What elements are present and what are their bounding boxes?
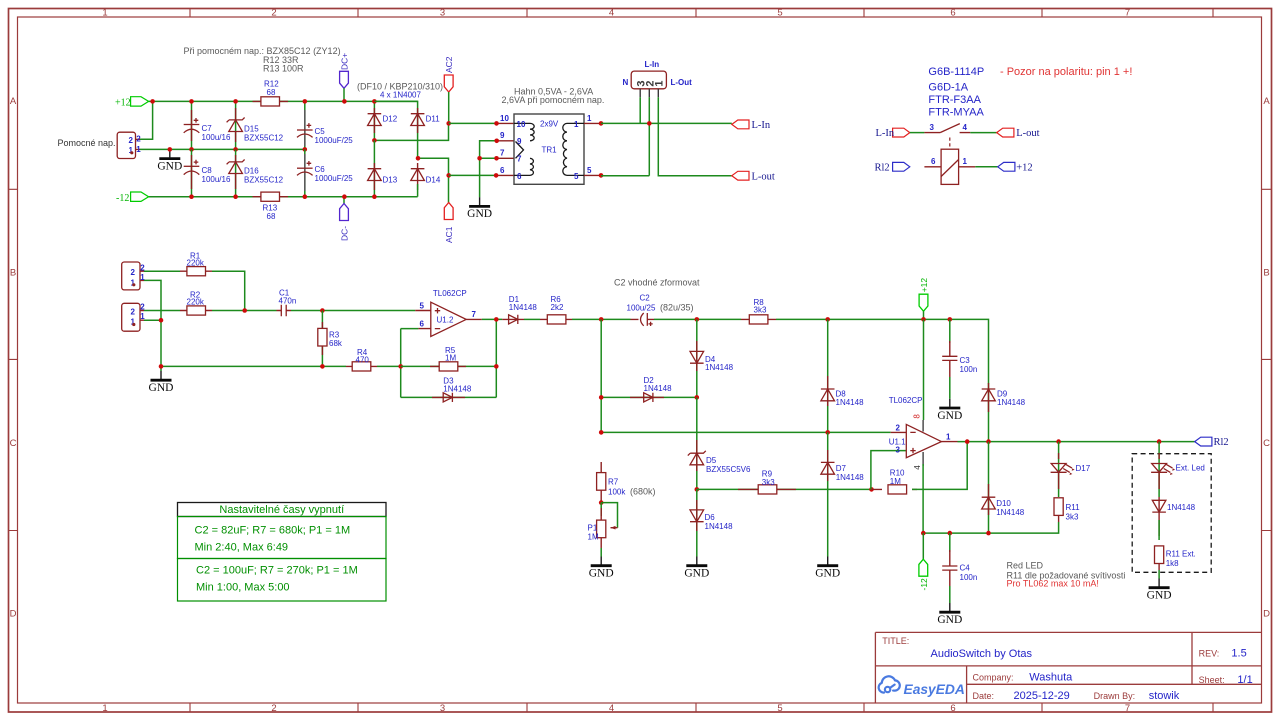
wire +12 rail: [140, 101, 418, 139]
junction C6 bottom: [303, 194, 308, 199]
svg-text:2: 2: [271, 8, 276, 19]
svg-text:TL062CP: TL062CP: [433, 289, 467, 298]
svg-text:1N4148: 1N4148: [443, 384, 472, 393]
svg-text:DC+: DC+: [340, 53, 350, 70]
note relay types: [928, 66, 1132, 119]
svg-text:D12: D12: [383, 115, 398, 124]
note DF10: [357, 81, 443, 99]
svg-text:D11: D11: [426, 115, 441, 124]
dashed box ext led: [1132, 454, 1211, 573]
wire TR1 pin1 to mains connector: [584, 121, 732, 126]
svg-text:(82u/35): (82u/35): [660, 302, 694, 312]
svg-text:100n: 100n: [960, 365, 978, 374]
svg-text:100u/16: 100u/16: [202, 133, 231, 142]
svg-text:Rl2: Rl2: [1214, 437, 1229, 448]
wire mains pin2: [648, 97, 650, 176]
junction C7 top: [189, 99, 194, 104]
junction R7 bottom: [599, 500, 604, 505]
svg-text:5: 5: [574, 172, 579, 181]
title block: [875, 632, 1261, 703]
junction D8 top: [825, 317, 830, 322]
svg-text:8: 8: [913, 414, 922, 419]
connector J3 input B: [122, 303, 146, 332]
zener D16: [227, 149, 284, 196]
svg-text:C: C: [10, 438, 17, 449]
diode 1N4148 ext: [1152, 497, 1195, 540]
ground GND C4: [937, 603, 962, 626]
svg-text:C2 = 100uF; R7 = 270k; P1 = 1M: C2 = 100uF; R7 = 270k; P1 = 1M: [196, 565, 358, 577]
svg-text:1: 1: [963, 157, 968, 166]
junction bottom rail C4: [948, 531, 953, 536]
wire AC2 node to TR1 pin10: [449, 114, 514, 126]
svg-text:1N4148: 1N4148: [705, 363, 734, 372]
svg-text:D6: D6: [705, 513, 716, 522]
wire relay contact right: [970, 132, 996, 134]
diode D8: [821, 319, 864, 432]
svg-text:AC1: AC1: [444, 226, 454, 243]
svg-text:1N4148: 1N4148: [836, 473, 865, 482]
svg-text:100k: 100k: [608, 487, 626, 496]
zener D5: [688, 397, 751, 489]
svg-text:2: 2: [131, 307, 136, 316]
junction output D17: [1056, 439, 1061, 444]
junction input B pin1: [159, 318, 164, 323]
resistor R7: [597, 462, 656, 503]
capacitor C7: [184, 101, 231, 149]
transformer TR1: [514, 114, 584, 184]
wire input B pin2 to R2: [144, 310, 180, 312]
resistor R4: [346, 348, 377, 371]
resistor R6: [540, 295, 572, 324]
svg-text:1N4148: 1N4148: [644, 384, 673, 393]
wire R6 to C2: [572, 318, 631, 320]
svg-text:3k3: 3k3: [762, 478, 775, 487]
junction pin2 rail D8: [825, 430, 830, 435]
ground GND inputs: [149, 371, 174, 394]
svg-text:Date:: Date:: [973, 691, 995, 701]
ground GND ext: [1147, 579, 1172, 602]
op-amp U1.2: [415, 289, 482, 337]
svg-text:AudioSwitch by Otas: AudioSwitch by Otas: [931, 648, 1033, 660]
junction output feedback: [965, 439, 970, 444]
svg-text:R13 100R: R13 100R: [263, 64, 304, 74]
svg-text:BZX55C12: BZX55C12: [244, 175, 284, 184]
junction DC-: [342, 194, 347, 199]
svg-text:220k: 220k: [187, 258, 205, 267]
potentiometer P1: [588, 503, 618, 548]
svg-text:1: 1: [653, 80, 665, 86]
svg-text:1: 1: [102, 703, 107, 714]
note red led: [1007, 561, 1126, 589]
svg-text:Drawn By:: Drawn By:: [1094, 691, 1136, 701]
svg-text:1: 1: [574, 120, 579, 129]
diode D6: [690, 489, 733, 556]
svg-text:5: 5: [777, 703, 782, 714]
wire R11 to bottom rail: [923, 522, 1058, 533]
diode D2: [601, 376, 697, 402]
svg-text:stowik: stowik: [1149, 690, 1180, 702]
svg-text:Min 2:40, Max 6:49: Min 2:40, Max 6:49: [195, 542, 289, 554]
svg-text:7: 7: [472, 310, 477, 319]
junction AC2 node: [446, 121, 451, 126]
junction C8 bottom: [189, 194, 194, 199]
wire R2 out to C1: [212, 310, 277, 312]
junction GND stem: [168, 147, 173, 152]
svg-text:4: 4: [609, 8, 614, 19]
svg-text:4: 4: [963, 123, 968, 132]
wire input A pin2 to R1: [144, 270, 180, 272]
net flag +12 relay: [998, 162, 1033, 173]
ground GND C3: [937, 399, 962, 422]
net port DC+: [340, 53, 350, 102]
diode D11: [374, 101, 440, 158]
net flag L-out relay: [997, 128, 1040, 139]
svg-text:C8: C8: [202, 166, 213, 175]
svg-text:DC-: DC-: [340, 226, 350, 241]
svg-text:C4: C4: [960, 564, 971, 573]
svg-text:R11: R11: [1066, 503, 1081, 512]
ground GND under TR1: [467, 197, 492, 220]
net flag +12: [115, 97, 149, 109]
svg-text:(680k): (680k): [630, 486, 656, 496]
svg-text:1k8: 1k8: [1166, 559, 1179, 568]
junction L-In branch: [647, 121, 652, 126]
svg-text:7: 7: [1125, 8, 1130, 19]
resistor R9: [697, 469, 872, 494]
svg-text:FTR-F3AA: FTR-F3AA: [928, 94, 981, 106]
svg-text:2x9V: 2x9V: [540, 120, 559, 129]
wire mains pin3: [639, 97, 641, 123]
svg-text:2: 2: [129, 136, 134, 145]
connector J mains L-In: [623, 60, 693, 97]
svg-text:Min 1:00, Max 5:00: Min 1:00, Max 5:00: [196, 582, 290, 594]
resistor R1: [180, 251, 212, 276]
svg-text:6: 6: [950, 8, 955, 19]
svg-text:100u/16: 100u/16: [202, 175, 231, 184]
capacitor C3: [942, 319, 977, 398]
junction C3 top: [948, 317, 953, 322]
junction C2 right: [695, 317, 700, 322]
svg-text:3: 3: [440, 703, 445, 714]
svg-text:Rl2: Rl2: [875, 162, 890, 173]
op-amp U1.1: [889, 396, 958, 458]
svg-text:L-In: L-In: [752, 120, 771, 131]
junction D2 right: [695, 395, 700, 400]
junction D12 top: [372, 99, 377, 104]
junction R10 left: [869, 487, 874, 492]
capacitor C4: [942, 533, 977, 603]
svg-text:6: 6: [950, 703, 955, 714]
wire C2 to R8: [654, 318, 741, 320]
net flag L-In top: [732, 120, 771, 131]
junction output ExtLed: [1157, 439, 1162, 444]
junction output D9 D10: [986, 439, 991, 444]
svg-text:2025-12-29: 2025-12-29: [1014, 690, 1070, 702]
wire pin3 to R10 node: [871, 451, 906, 490]
svg-text:D10: D10: [996, 499, 1011, 508]
svg-text:9: 9: [517, 137, 522, 146]
svg-text:L-Out: L-Out: [671, 78, 693, 87]
wire -12 rail: [149, 196, 418, 198]
svg-text:-12: -12: [919, 578, 929, 591]
svg-text:Nastavitelné časy vypnutí: Nastavitelné časy vypnutí: [219, 504, 344, 516]
svg-text:D16: D16: [244, 167, 259, 176]
svg-text:68k: 68k: [329, 339, 343, 348]
svg-text:D: D: [1263, 609, 1270, 620]
svg-text:B: B: [10, 267, 16, 278]
svg-text:D13: D13: [383, 176, 398, 185]
led D17: [1051, 442, 1091, 497]
connector P1 Pomocne nap.: [58, 132, 142, 158]
junction +12 rail at connector branch: [150, 99, 155, 104]
svg-text:2: 2: [136, 135, 141, 144]
logo EasyEDA: [879, 676, 965, 697]
junction D15 bottom: [233, 147, 238, 152]
capacitor C5: [297, 101, 353, 149]
svg-text:1M: 1M: [588, 532, 599, 541]
wire bridge mid-left to AC2: [374, 123, 448, 140]
junction D16 bottom: [233, 194, 238, 199]
net flag -12: [919, 533, 929, 590]
svg-text:1M: 1M: [890, 477, 901, 486]
diode D14: [411, 163, 441, 197]
svg-text:220k: 220k: [187, 298, 205, 307]
junction R3 bottom: [320, 364, 325, 369]
relay K1 coil: [924, 149, 975, 184]
note: Pri pomocnem nap.: [184, 46, 341, 74]
svg-text:A: A: [1263, 96, 1270, 107]
svg-text:1.5: 1.5: [1231, 648, 1246, 660]
svg-text:AC2: AC2: [444, 56, 454, 73]
svg-text:68: 68: [267, 88, 276, 97]
ground GND psu: [157, 149, 182, 172]
svg-text:100n: 100n: [960, 573, 978, 582]
svg-text:1: 1: [136, 145, 141, 154]
svg-text:BZX55C5V6: BZX55C5V6: [706, 465, 751, 474]
svg-text:L-out: L-out: [1016, 128, 1039, 139]
svg-text:100u/25: 100u/25: [627, 303, 656, 312]
junction +12 flag: [921, 317, 926, 322]
wire signal node vertical left: [600, 319, 602, 432]
svg-text:4: 4: [609, 703, 614, 714]
svg-text:3k3: 3k3: [1066, 513, 1079, 522]
svg-text:Ext. Led: Ext. Led: [1176, 463, 1205, 472]
svg-text:L-In: L-In: [876, 128, 895, 139]
svg-text:D5: D5: [706, 456, 717, 465]
svg-text:3: 3: [930, 123, 935, 132]
ground GND D7: [815, 557, 840, 580]
svg-text:1N4148: 1N4148: [836, 398, 865, 407]
svg-text:6: 6: [420, 319, 425, 328]
junction bottom rail D10: [986, 531, 991, 536]
wire opamp out: [482, 318, 502, 320]
svg-text:6: 6: [517, 172, 522, 181]
capacitor C8: [184, 149, 231, 196]
svg-text:2k2: 2k2: [551, 303, 564, 312]
svg-text:5: 5: [420, 301, 425, 310]
diode D13: [368, 140, 398, 196]
junction D2 left: [599, 395, 604, 400]
connector J2 input A: [122, 262, 146, 290]
wire R11 ext to gnd: [1158, 570, 1160, 579]
resistor R13: [253, 192, 289, 221]
resistor R3: [318, 311, 343, 367]
wire D14 top to AC1 node: [418, 158, 449, 202]
net flag Rl2 output: [1195, 437, 1229, 448]
svg-text:10: 10: [500, 114, 509, 123]
wire C1 to opamp pin5: [291, 310, 415, 312]
svg-text:5: 5: [777, 8, 782, 19]
svg-text:Company:: Company:: [973, 672, 1014, 682]
svg-text:1/1: 1/1: [1237, 674, 1252, 686]
wire relay coil right: [975, 166, 997, 168]
wire input A pin1 to gnd rail: [144, 280, 161, 371]
svg-text:TR1: TR1: [542, 146, 558, 155]
wire gnd-return rail: [161, 365, 346, 367]
svg-text:Sheet:: Sheet:: [1199, 675, 1225, 685]
svg-text:2,6VA při pomocném nap.: 2,6VA při pomocném nap.: [502, 95, 605, 105]
svg-text:3: 3: [440, 8, 445, 19]
svg-text:C2 vhodné zformovat: C2 vhodné zformovat: [614, 277, 700, 287]
svg-text:B: B: [1263, 267, 1269, 278]
svg-text:7: 7: [1125, 703, 1130, 714]
svg-text:9: 9: [500, 131, 505, 140]
svg-text:G6D-1A: G6D-1A: [928, 82, 968, 94]
junction R3 top: [320, 308, 325, 313]
svg-text:+12: +12: [115, 98, 131, 109]
svg-text:2: 2: [896, 423, 901, 432]
svg-text:C5: C5: [315, 127, 326, 136]
resistor R11 Ext: [1155, 546, 1196, 570]
svg-text:1N4148: 1N4148: [1167, 503, 1196, 512]
junction bottom rail pin4: [921, 531, 926, 536]
svg-text:+12: +12: [1016, 162, 1032, 173]
svg-text:4: 4: [913, 465, 922, 470]
svg-text:1N4148: 1N4148: [997, 398, 1026, 407]
svg-text:- Pozor na polaritu: pin 1 +!: - Pozor na polaritu: pin 1 +!: [1000, 66, 1132, 78]
net port AC2: [444, 56, 454, 123]
svg-text:Pomocné nap.: Pomocné nap.: [58, 138, 116, 148]
svg-text:C: C: [1263, 438, 1270, 449]
svg-text:1000uF/25: 1000uF/25: [315, 136, 354, 145]
net flag L-out top: [732, 171, 775, 182]
wire opamp pin6 stub: [401, 328, 419, 330]
resistor R11: [1054, 498, 1080, 522]
svg-text:N: N: [623, 78, 629, 87]
svg-text:68: 68: [267, 212, 276, 221]
junction C5 top: [303, 99, 308, 104]
junction R5 right: [494, 364, 499, 369]
svg-text:R10: R10: [890, 468, 905, 477]
svg-text:D14: D14: [426, 176, 441, 185]
svg-text:3k3: 3k3: [754, 305, 767, 314]
net flag -12: [116, 192, 149, 204]
wire GND mid rail: [140, 148, 305, 150]
svg-text:D7: D7: [836, 464, 847, 473]
wire R1 out down to signal: [212, 271, 245, 310]
diode D9: [982, 383, 1026, 442]
svg-text:R11 Ext.: R11 Ext.: [1166, 549, 1196, 558]
junction DC+: [342, 99, 347, 104]
svg-text:2: 2: [131, 268, 136, 277]
svg-text:1N4148: 1N4148: [705, 522, 734, 531]
svg-text:Red LED: Red LED: [1007, 561, 1044, 571]
svg-text:1N4148: 1N4148: [996, 508, 1025, 517]
svg-text:P1: P1: [588, 523, 598, 532]
junction opamp out: [494, 317, 499, 322]
junction gnd-return left: [159, 364, 164, 369]
diode D4: [690, 319, 734, 397]
svg-text:R7: R7: [608, 477, 619, 486]
junction D14 top: [416, 156, 421, 161]
wire relay contact left: [910, 132, 925, 134]
svg-text:D: D: [10, 609, 17, 620]
svg-text:C2: C2: [640, 293, 651, 302]
wire TR1 pins 9 7 to ground: [477, 131, 514, 197]
svg-text:470: 470: [356, 355, 370, 364]
svg-text:470n: 470n: [279, 297, 297, 306]
resistor R5: [401, 346, 497, 371]
svg-text:L-out: L-out: [752, 171, 775, 182]
resistor R2: [180, 291, 212, 316]
capacitor C1: [277, 289, 297, 317]
wire input B pin1: [144, 319, 161, 321]
svg-text:D15: D15: [244, 125, 259, 134]
svg-text:Washuta: Washuta: [1029, 671, 1073, 683]
svg-text:1: 1: [102, 8, 107, 19]
wire mains pin1 to L-out: [658, 97, 732, 176]
svg-text:EasyEDA: EasyEDA: [904, 682, 965, 697]
net flag L-In relay: [876, 128, 910, 139]
capacitor C2: [627, 293, 694, 326]
diode D1: [502, 295, 537, 324]
junction D15 top: [233, 99, 238, 104]
svg-text:BZX55C12: BZX55C12: [244, 133, 284, 142]
net port DC-: [340, 197, 350, 241]
svg-text:-12: -12: [116, 193, 129, 204]
junction C7 bottom: [189, 147, 194, 152]
svg-text:C2 = 82uF; R7 = 680k; P1 = 1M: C2 = 82uF; R7 = 680k; P1 = 1M: [195, 525, 351, 537]
junction pin2 rail left: [599, 430, 604, 435]
svg-text:FTR-MYAA: FTR-MYAA: [928, 107, 984, 119]
svg-text:+12: +12: [919, 278, 929, 293]
led Ext.Led: [1151, 442, 1205, 497]
wire U1.1 pin8 supply: [913, 319, 924, 431]
svg-text:D17: D17: [1076, 464, 1091, 473]
wire R10 to output: [912, 442, 967, 490]
junction AC1 node: [446, 173, 451, 178]
svg-text:6: 6: [500, 166, 505, 175]
wire TR1 pin5: [584, 114, 649, 178]
svg-text:3: 3: [896, 445, 901, 454]
zener D15: [227, 101, 284, 149]
diode D3: [401, 376, 497, 402]
svg-text:TL062CP: TL062CP: [889, 396, 923, 405]
svg-text:10: 10: [517, 120, 526, 129]
wire AC1 node to TR1 pin6: [449, 166, 514, 178]
svg-text:Pro TL062 max 10 mA!: Pro TL062 max 10 mA!: [1007, 579, 1099, 589]
junction D13 bottom: [372, 194, 377, 199]
svg-text:1: 1: [587, 114, 592, 123]
svg-text:5: 5: [587, 166, 592, 175]
wire U1.1 pin2 rail: [601, 431, 891, 433]
svg-text:U1.2: U1.2: [437, 315, 454, 324]
net flag +12 top: [919, 278, 929, 320]
resistor R12: [253, 80, 289, 107]
wire R4 to inverting node: [377, 365, 401, 367]
junction D5 bottom: [695, 487, 700, 492]
svg-text:4 x 1N4007: 4 x 1N4007: [380, 90, 421, 99]
